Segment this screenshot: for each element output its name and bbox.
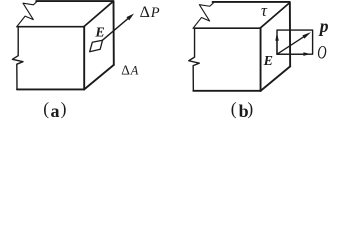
svg-text:ΔA: ΔA (121, 63, 138, 78)
svg-text:): ) (247, 98, 253, 118)
svg-text:E: E (263, 54, 273, 69)
svg-text:): ) (61, 98, 67, 118)
svg-text:p: p (318, 16, 329, 36)
svg-text:ΔP: ΔP (140, 4, 160, 21)
svg-text:a: a (51, 101, 60, 120)
svg-text:(: ( (231, 98, 237, 118)
svg-text:E: E (94, 25, 104, 40)
svg-text:(: ( (43, 98, 49, 118)
svg-text:O: O (317, 44, 327, 64)
